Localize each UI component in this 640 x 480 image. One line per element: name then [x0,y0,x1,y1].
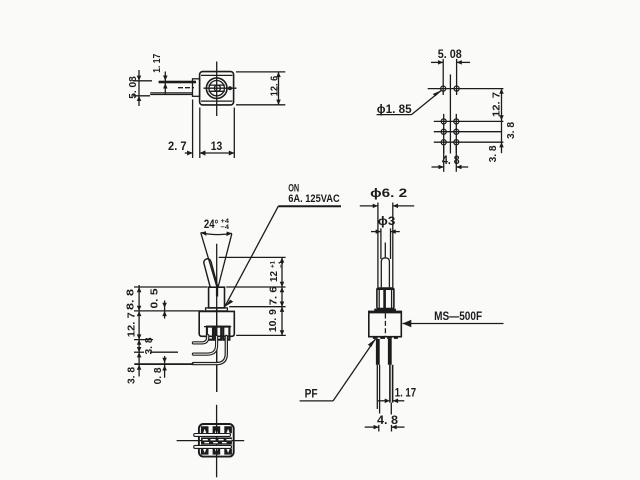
svg-text:4. 8: 4. 8 [377,413,398,427]
wire bar 1 (seen from below) [194,434,231,437]
lever (bat handle) [203,258,220,296]
lower pins rows centerlines [434,120,504,122]
dim 4.8 dimension line + outside arrows [432,166,444,168]
svg-text:13: 13 [211,139,223,153]
top row terminal cavity 2 [213,426,221,433]
lever shaft inside bushing [216,288,218,297]
left chain dimension line [138,285,140,377]
wire bar 2 (seen from below) [194,445,232,448]
svg-text:0. 5: 0. 5 [148,288,160,308]
svg-text:PF: PF [305,386,318,400]
svg-text:12. 7: 12. 7 [491,92,503,117]
dim 1.17 line + arrows [378,400,387,402]
wire 3 thick reference line [134,363,193,365]
lever tip lines (phi3) [380,228,382,259]
svg-text:−1: −1 [278,261,285,268]
lever outer silhouette lines [377,203,379,288]
left terminal support tab [193,79,200,97]
row1 horizontal centerline [428,88,504,90]
bushing [209,287,225,308]
svg-text:ϕ1. 85: ϕ1. 85 [377,102,412,116]
svg-text:12. 6: 12. 6 [268,76,280,97]
right extension line body bottom [236,334,286,336]
bottom row terminal cavity 3 [224,449,232,455]
row1 pin hole right [454,86,459,91]
dim 2.7/13 extension lines below [192,100,194,159]
right wire thin lines [389,365,391,403]
dim 2.7 dimension line + arrows [185,152,193,154]
svg-text:24°: 24° [204,219,219,231]
dim 4.8 dimension line + outside arrows [365,426,379,428]
mounting flange [206,308,228,311]
extension line bushing top [134,286,208,288]
dim 12.6 arrowheads [276,72,281,77]
terminal 2 (hidden centerline, dashed) [178,87,194,89]
bushing inner thread lines [378,289,380,309]
body top thick band [369,311,402,313]
bushing top thick edge [377,288,394,290]
svg-text:12: 12 [268,271,280,282]
phi1.85 leader underline [377,114,412,116]
bottom row terminal cavity 2 [213,449,221,455]
dim 12.6 dimension line [278,72,280,105]
row1 pin vertical extension lines [442,59,444,95]
svg-text:4. 8: 4. 8 [442,153,460,167]
svg-text:3. 8: 3. 8 [505,122,517,139]
row1 pin hole left [441,86,446,91]
dim 12.6 extension lines [236,71,285,73]
right dim arrowheads [280,257,285,262]
phi1.85 leader line + arrowhead [412,90,442,114]
bushing inner circle [209,81,224,96]
lever swing line right [218,234,232,289]
dim 5.08 extension lines [133,80,152,82]
svg-text:7. 6: 7. 6 [268,286,280,305]
vertical centerline [216,405,218,478]
svg-text:ϕ3: ϕ3 [378,214,396,228]
svg-text:0. 8: 0. 8 [152,367,164,384]
dim 4.8 extension lines [378,425,380,432]
dim phi6.2 dimension line + outside arrows [360,205,378,207]
left wire thick segment [376,339,380,365]
central vertical centerline [449,74,451,153]
body centerline dashed [384,314,386,337]
PF leader underline [300,400,334,402]
main body (front) [369,311,402,336]
body outline (top view) [200,72,234,105]
angle arc with arrowheads [201,233,233,235]
terminal 3 (double line) [150,92,192,94]
extension line body top [134,310,205,312]
right extension line flange top [229,306,285,308]
svg-text:ϕ6. 2: ϕ6. 2 [370,186,407,200]
lower pins column centerlines [443,114,445,153]
top row terminal cavity 3 [224,426,232,433]
svg-text:6A. 125VAC: 6A. 125VAC [288,193,340,205]
terminal bumps row [373,337,378,339]
dim 1.17 arrowheads [163,76,168,81]
dim 4.8 extension lines [443,146,445,172]
dim 5.08 arrowheads [137,76,142,81]
svg-text:10. 9: 10. 9 [267,309,279,332]
molding top edge [204,326,231,328]
terminal 1 (thick, side-on) [159,81,196,84]
dim 12.7 dimension line [501,89,503,154]
svg-text:5. 08: 5. 08 [438,47,462,61]
vertical centerline [216,62,218,117]
lever tip circle inside slot [214,85,220,91]
middle dark band [201,437,232,444]
svg-text:12. 7: 12. 7 [125,312,137,337]
horizontal centerline [177,440,245,442]
horizontal centerline [204,87,237,89]
body outline (bottom view) [199,424,234,457]
screwdriver slot upper line [209,84,225,86]
dim phi3 dimension line + outside arrows [371,231,381,233]
dim 0.8 witness line + arrows [164,356,166,378]
left wire thin lines [376,365,378,409]
lever swing line left [201,233,218,288]
MS-500F leader arrow [403,323,504,325]
dim 1.17 witness line [164,72,166,95]
right extension line bushing top [226,286,285,288]
wire 1 (bent terminal) [193,336,207,343]
dim 0.5 witness line + arrows [164,301,166,319]
washer band [374,309,396,312]
dim 5.08 witness line [138,70,140,106]
wire 3 (bent terminal) [193,337,226,364]
bushing outer circle [206,78,227,99]
svg-text:+1: +1 [270,261,277,268]
rating leader slanted line + arrowhead [225,206,279,307]
svg-text:1. 17: 1. 17 [395,386,417,400]
bushing (front) [377,288,394,309]
dim 13 dimension line + arrows [200,152,235,154]
main body [199,311,234,336]
lower pin holes (6x) [441,119,446,124]
right extension line lever top [219,256,286,258]
lever capsule centerline [384,243,386,259]
screwdriver slot lower line [209,90,225,92]
chain arrowheads [137,287,142,292]
centerline through bushing and body [216,287,218,392]
svg-text:−4: −4 [221,224,230,231]
keyway pin circle at right [229,87,232,90]
rating leader underline [278,205,341,207]
svg-text:2. 7: 2. 7 [168,139,187,153]
svg-text:MS—500F: MS—500F [434,309,482,323]
svg-text:3. 8: 3. 8 [143,337,155,354]
top row terminal cavity 1 [201,426,209,433]
right wire extension to dim [390,403,392,415]
lever capsule front view [381,258,389,287]
svg-text:3. 8: 3. 8 [125,367,137,384]
body inner top face line [201,74,232,76]
extension line wire2 [134,351,144,353]
lever shaft inside bushing (front) [383,288,386,309]
bottom row terminal cavity 1 [201,449,209,455]
PF leader slanted line + arrowhead [333,339,375,401]
right wire thick segment [388,339,392,365]
terminal molding tab 2 [215,327,221,340]
extension line molding bottom [134,339,153,341]
middle band white slits [203,439,208,440]
vertical centerline [216,244,218,392]
dim 5.08 dimension line + outside arrows [431,61,443,63]
terminal molding tab 3 [223,327,229,340]
terminal molding tab 1 [207,327,213,340]
svg-text:8. 8: 8. 8 [125,289,137,310]
svg-text:3. 8: 3. 8 [487,145,499,162]
svg-text:1. 17: 1. 17 [151,54,163,73]
right dimension line [281,257,283,335]
body inner bottom face line [201,100,232,102]
wire 2 (bent terminal) [193,337,216,355]
